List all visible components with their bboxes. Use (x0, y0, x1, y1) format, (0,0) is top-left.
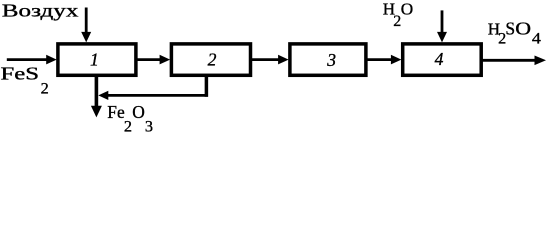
arrowhead Vozduh input (81, 32, 91, 43)
svg-text:O: O (515, 19, 531, 38)
svg-text:1: 1 (90, 49, 99, 69)
block 1 (58, 44, 136, 75)
svg-text:3: 3 (326, 50, 336, 70)
arrowhead H2SO4 output (535, 56, 547, 66)
svg-text:Воздух: Воздух (2, 1, 79, 21)
svg-text:Fe: Fe (107, 102, 125, 122)
block 3 (290, 44, 366, 75)
label FeS2 (1, 64, 49, 98)
wire Vozduh input (85, 8, 88, 34)
svg-text:2: 2 (208, 49, 217, 69)
wire H2O input (441, 10, 444, 33)
arrowhead FeS2 input (46, 55, 57, 65)
wire block1 to block2 (136, 58, 161, 61)
svg-text:S: S (505, 18, 515, 38)
label H2O (383, 0, 413, 30)
wire FeS2 input (7, 58, 48, 61)
svg-text:2: 2 (124, 117, 132, 134)
svg-text:O: O (132, 102, 145, 122)
wire Fe2O3 drain from block 1 (95, 76, 99, 108)
block 2 (171, 44, 250, 75)
svg-text:3: 3 (145, 117, 153, 134)
wire recycle horizontal (108, 94, 208, 97)
svg-text:2: 2 (41, 79, 49, 98)
label H2SO4 (488, 18, 541, 47)
arrowhead block1 to block2 (160, 55, 171, 65)
wire recycle riser from block 2 bottom (205, 76, 209, 97)
svg-text:4: 4 (532, 29, 541, 47)
wire block2 to block3 (251, 58, 279, 61)
svg-text:FeS: FeS (1, 64, 40, 84)
svg-text:O: O (401, 0, 413, 19)
arrowhead recycle into drain (98, 91, 108, 100)
wire H2SO4 output (482, 59, 536, 62)
svg-text:4: 4 (435, 49, 444, 69)
block 4 (403, 44, 482, 75)
arrowhead block3 to block4 (391, 55, 402, 65)
label Fe2O3 (107, 102, 153, 136)
wire block3 to block4 (366, 58, 392, 61)
arrowhead H2O input (437, 32, 447, 43)
arrowhead block2 to block3 (278, 55, 289, 65)
arrowhead Fe2O3 drain (91, 106, 102, 118)
